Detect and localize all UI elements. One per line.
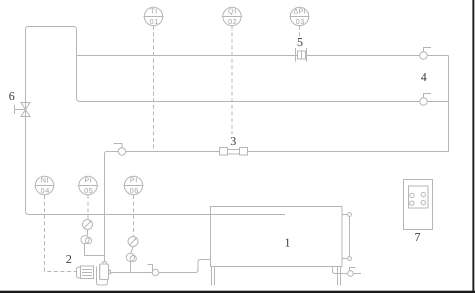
pump base bracket [97,267,108,286]
tank 1 [211,207,343,267]
valve 6 globe vertical [15,103,31,117]
svg-text:05: 05 [84,186,93,195]
pressure gauge on PI05 chain [83,220,93,236]
svg-text:TI: TI [150,7,158,16]
svg-text:NI: NI [41,176,49,185]
pump casing [99,264,109,280]
wire pipe A top [77,55,449,57]
wire valve-to-pump drop [105,152,119,263]
instrument QI 02 [222,7,242,25]
wire right vertical [126,56,449,152]
svg-text:PI: PI [130,176,138,185]
svg-text:3: 3 [230,134,236,148]
pump discharge stub [109,270,111,275]
panel 7 [404,180,433,230]
svg-text:PI: PI [84,176,92,185]
svg-text:1: 1 [285,235,291,249]
pump 2 motor [77,266,94,279]
svg-text:04: 04 [41,186,50,195]
tank level gauge [342,213,351,261]
valve V1 on pipe-3 line [114,144,126,156]
border bottom [0,291,475,293]
instrument PI 06 [124,176,144,194]
wire dashed QI02 [231,26,233,134]
valve 4b [420,94,431,106]
svg-text:4: 4 [421,70,427,84]
svg-text:03: 03 [296,17,305,26]
flow element 5 orifice [296,48,307,62]
svg-text:ΔPI: ΔPI [293,7,306,16]
wire dashed TI01 [153,26,155,152]
tank leg left [212,267,215,286]
siphon on PI06 chain [126,253,136,272]
wire dashed NI04 to motor [45,195,77,272]
wire drain from tank bottom [333,267,362,274]
svg-text:06: 06 [130,186,139,195]
svg-text:7: 7 [415,230,421,244]
tank leg right [338,267,341,286]
valve 4a [420,48,431,60]
pressure gauge on PI06 chain [128,237,138,253]
siphon on PI05 chain [81,236,105,256]
wire left riser with top loop corner [26,27,81,212]
svg-text:QI: QI [228,7,237,16]
text layer [9,7,427,266]
instrument dPI 03 [290,7,310,25]
wire dashed PI06 [133,195,135,236]
svg-text:2: 2 [66,252,72,266]
wire dashed PI05 [87,195,89,219]
border right [472,0,474,293]
flow element 3 [220,148,248,156]
wire pump discharge to tank [111,260,212,273]
svg-text:01: 01 [150,17,159,26]
instrument PI 05 [78,176,98,194]
wire pipe B second [80,101,449,103]
valve on drain [348,268,356,277]
valve on pump discharge [148,265,159,276]
svg-text:6: 6 [9,89,15,103]
instrument TI 01 [144,7,164,25]
pump inlet flange triangles [102,261,108,263]
svg-text:5: 5 [297,35,303,49]
wire dashed dPI03 [299,26,301,37]
svg-text:02: 02 [228,17,237,26]
wire long horizontal to tank dip tube [26,212,286,215]
instrument NI 04 [35,176,55,194]
